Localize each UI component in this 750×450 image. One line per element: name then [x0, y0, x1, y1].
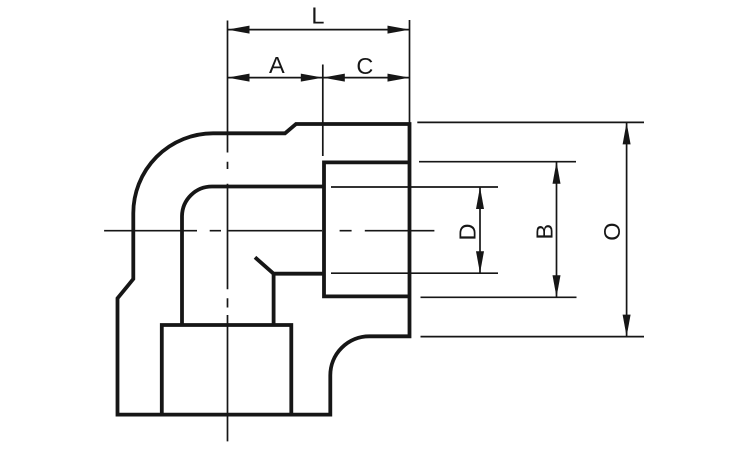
- svg-text:O: O: [599, 222, 625, 240]
- svg-text:L: L: [311, 3, 324, 29]
- svg-text:B: B: [532, 224, 558, 240]
- extension lines B: [419, 161, 576, 163]
- dimension D line: [479, 187, 481, 273]
- dimension A line: [228, 77, 323, 79]
- extension line A/C boundary: [322, 65, 324, 157]
- extension line right end: [409, 20, 411, 124]
- dimension C line: [323, 77, 410, 79]
- extension lines O: [417, 121, 644, 123]
- dimension B line: [556, 162, 558, 298]
- elbow fitting body outline: [118, 124, 410, 415]
- extension lines D: [331, 186, 498, 188]
- svg-text:A: A: [269, 52, 285, 78]
- vertical centerline: [227, 134, 229, 442]
- inner bore right vertical: [272, 274, 276, 325]
- inner bore left vertical: [180, 216, 184, 325]
- extension line left (centerline up): [227, 21, 229, 134]
- bore intersection diagonal and bottom line: [255, 257, 324, 273]
- dimension L line: [228, 29, 410, 31]
- dimension O line: [626, 122, 628, 336]
- right port socket: [324, 162, 410, 296]
- svg-text:D: D: [454, 224, 480, 241]
- svg-text:C: C: [356, 53, 373, 79]
- inner bore arc and top line: [182, 187, 324, 217]
- bottom port socket: [162, 325, 291, 415]
- horizontal centerline: [104, 230, 434, 232]
